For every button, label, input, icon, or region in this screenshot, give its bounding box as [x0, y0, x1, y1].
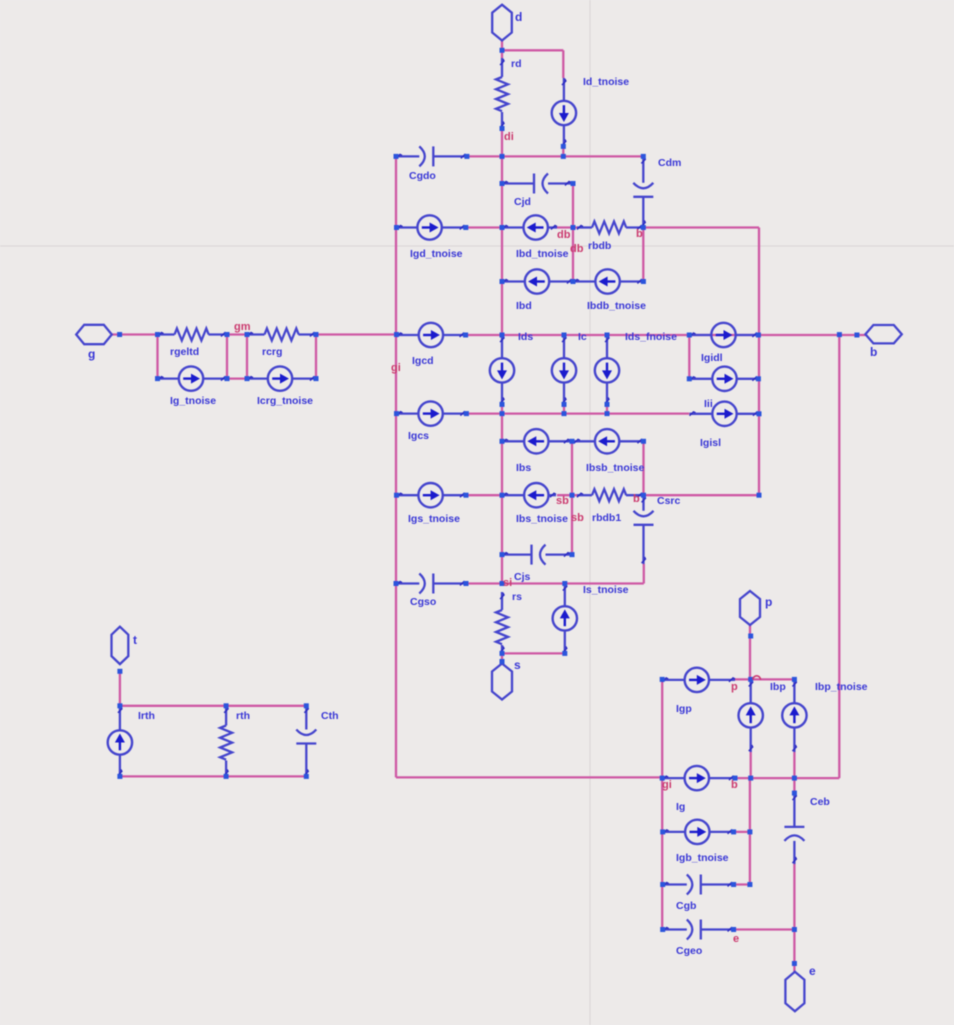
svg-text:db: db — [557, 229, 571, 241]
svg-text:Igb_tnoise: Igb_tnoise — [676, 852, 729, 864]
svg-text:Cgdo: Cgdo — [409, 170, 436, 182]
svg-text:Irth: Irth — [138, 710, 155, 722]
svg-text:Ibdb_tnoise: Ibdb_tnoise — [587, 300, 646, 312]
svg-text:rcrg: rcrg — [262, 346, 282, 358]
svg-text:Ibsb_tnoise: Ibsb_tnoise — [586, 462, 645, 474]
svg-text:Csrc: Csrc — [657, 495, 681, 507]
svg-text:g: g — [88, 347, 95, 361]
svg-text:Ig_tnoise: Ig_tnoise — [170, 395, 216, 407]
svg-text:rth: rth — [236, 710, 250, 722]
svg-text:b: b — [731, 779, 738, 791]
svg-text:Is_tnoise: Is_tnoise — [583, 584, 629, 596]
svg-text:Igcd: Igcd — [412, 355, 434, 367]
svg-text:Ibs: Ibs — [516, 462, 531, 474]
svg-text:Cth: Cth — [321, 710, 339, 722]
svg-text:Ic: Ic — [578, 331, 587, 343]
svg-text:Igidl: Igidl — [701, 352, 723, 364]
svg-text:d: d — [515, 10, 522, 24]
svg-text:b: b — [633, 493, 640, 505]
svg-text:Igs_tnoise: Igs_tnoise — [408, 513, 460, 525]
svg-text:p: p — [765, 595, 772, 609]
svg-text:gi: gi — [391, 362, 401, 374]
svg-text:gm: gm — [234, 321, 251, 333]
svg-text:Ibp_tnoise: Ibp_tnoise — [815, 681, 868, 693]
svg-text:Iii: Iii — [704, 398, 713, 410]
svg-text:gi: gi — [662, 779, 672, 791]
svg-text:di: di — [504, 131, 514, 143]
svg-text:rs: rs — [512, 591, 522, 603]
svg-text:e: e — [733, 933, 739, 945]
svg-text:rbdb1: rbdb1 — [592, 512, 621, 524]
svg-text:Cgb: Cgb — [676, 900, 696, 912]
svg-text:Ig: Ig — [676, 801, 685, 813]
svg-text:Igcs: Igcs — [408, 430, 429, 442]
svg-text:rgeltd: rgeltd — [170, 346, 199, 358]
svg-text:Ibp: Ibp — [770, 681, 786, 693]
svg-text:Cgeo: Cgeo — [676, 945, 702, 957]
svg-text:Cgso: Cgso — [410, 596, 436, 608]
svg-text:Ibd: Ibd — [516, 300, 532, 312]
svg-text:db: db — [570, 243, 584, 255]
svg-text:t: t — [133, 633, 137, 647]
svg-text:rbdb: rbdb — [588, 240, 611, 252]
svg-text:Cjs: Cjs — [514, 571, 531, 583]
svg-text:sb: sb — [556, 495, 569, 507]
svg-text:p: p — [731, 681, 738, 693]
svg-text:b: b — [636, 228, 643, 240]
svg-text:Icrg_tnoise: Icrg_tnoise — [257, 395, 313, 407]
svg-text:Cdm: Cdm — [658, 157, 681, 169]
svg-text:b: b — [870, 345, 877, 359]
svg-text:Igd_tnoise: Igd_tnoise — [410, 248, 463, 260]
svg-text:Id_tnoise: Id_tnoise — [583, 76, 629, 88]
svg-text:Igisl: Igisl — [700, 437, 721, 449]
svg-text:e: e — [809, 964, 816, 978]
svg-text:Ibs_tnoise: Ibs_tnoise — [516, 513, 568, 525]
svg-text:Ibd_tnoise: Ibd_tnoise — [516, 248, 569, 260]
svg-text:Ids_fnoise: Ids_fnoise — [625, 331, 677, 343]
svg-text:Igp: Igp — [676, 703, 692, 715]
svg-text:Ids: Ids — [518, 331, 533, 343]
svg-text:s: s — [514, 658, 521, 672]
svg-text:si: si — [503, 577, 512, 589]
svg-text:sb: sb — [571, 512, 584, 524]
svg-text:Ceb: Ceb — [810, 796, 830, 808]
svg-text:rd: rd — [511, 58, 522, 70]
svg-text:Cjd: Cjd — [514, 196, 531, 208]
